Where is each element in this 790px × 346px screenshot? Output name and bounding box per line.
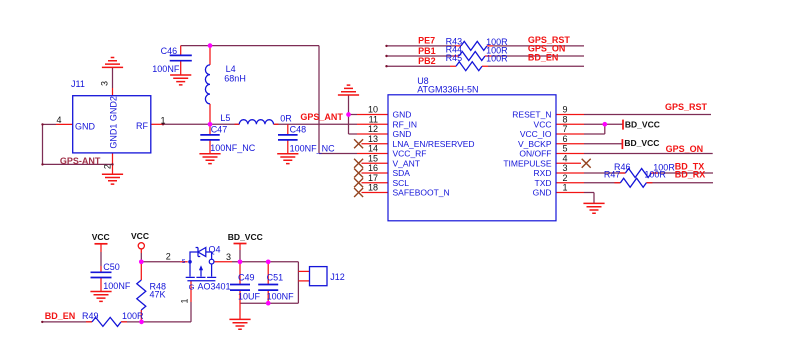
svg-text:47K: 47K xyxy=(150,290,166,300)
wire pin7 riser xyxy=(584,124,605,134)
resistor R47 leads xyxy=(614,182,652,184)
svg-text:68nH: 68nH xyxy=(224,74,246,84)
svg-text:ON/OFF: ON/OFF xyxy=(519,149,551,159)
wire VCC stem mid xyxy=(100,252,102,266)
svg-text:100NF: 100NF xyxy=(152,64,180,74)
ground below C49 xyxy=(229,319,250,329)
wire left column vertical xyxy=(42,124,44,164)
wire link to pin10 xyxy=(349,114,358,116)
VCC power stem xyxy=(100,244,102,292)
transistor Q4 channel bars xyxy=(186,276,217,278)
svg-text:GND: GND xyxy=(393,110,412,120)
svg-text:VCC: VCC xyxy=(131,231,149,241)
wire J11 pin4 to left column xyxy=(43,123,57,125)
ground below C50 xyxy=(90,292,111,302)
svg-text:BD_VCC: BD_VCC xyxy=(625,120,660,130)
node J11 corner bottom xyxy=(41,163,43,165)
inductor L4 coil xyxy=(205,65,210,104)
wire gate riser xyxy=(190,302,192,322)
svg-text:2: 2 xyxy=(103,164,113,169)
svg-text:PB1: PB1 xyxy=(418,46,436,56)
svg-text:4: 4 xyxy=(563,153,568,163)
wire J12 vertical xyxy=(297,262,299,303)
ground above J11 pin3 (inverted) xyxy=(102,58,123,68)
svg-text:GPS_ON: GPS_ON xyxy=(666,144,704,154)
resistor R49 leads xyxy=(86,321,127,323)
ground below C46 xyxy=(170,75,191,85)
resistor R46 leads xyxy=(619,172,657,174)
svg-text:C46: C46 xyxy=(161,46,178,56)
node PE7 wire end xyxy=(385,45,387,47)
no-connect X pin16 xyxy=(354,169,363,178)
svg-text:R47: R47 xyxy=(604,169,621,179)
svg-text:VCC_RF: VCC_RF xyxy=(393,149,427,159)
power port BD_VCC at pin8 (bar) xyxy=(622,120,624,130)
resistor R48 leads xyxy=(140,262,142,322)
ground above U8 pins 10/12 (inverted) xyxy=(338,85,359,95)
svg-text:GND: GND xyxy=(393,129,412,139)
J12 pin 2 stub xyxy=(298,280,309,282)
transistor Q4 gate line xyxy=(187,280,215,282)
resistor R43 zigzag xyxy=(461,41,487,50)
U8 pin 3 stub xyxy=(556,172,584,174)
svg-text:C51: C51 xyxy=(267,273,284,283)
svg-text:11: 11 xyxy=(369,114,378,124)
svg-text:RXD: RXD xyxy=(534,168,552,178)
svg-text:C49: C49 xyxy=(238,273,255,283)
wire R49 to gate corner xyxy=(121,321,191,323)
U8 pin 6 stub xyxy=(556,143,584,145)
svg-text:17: 17 xyxy=(368,173,378,183)
junction C51 top xyxy=(266,259,271,264)
svg-text:100R: 100R xyxy=(644,170,666,180)
svg-text:100R: 100R xyxy=(122,311,144,321)
U8 pin 5 stub xyxy=(556,153,584,155)
svg-text:BD_EN: BD_EN xyxy=(528,52,559,62)
node PB1 wire end xyxy=(385,55,387,57)
junction U8 gnd pin10 xyxy=(346,112,351,117)
svg-text:GPS_ANT: GPS_ANT xyxy=(300,112,343,122)
wire pin3 RXD to R46 and BD_TX xyxy=(584,172,713,174)
capacitor C51 leads xyxy=(267,262,269,303)
ground below C47 xyxy=(199,154,220,164)
svg-text:C48: C48 xyxy=(290,125,307,135)
wire GPS_ON pin5 xyxy=(584,153,713,155)
node J11 corner top xyxy=(41,123,43,125)
wire pin8 to BD_VCC xyxy=(584,123,623,125)
wire RF path left of L5 xyxy=(162,123,239,125)
ground at U8 pin1 xyxy=(583,203,604,213)
capacitor C49 leads xyxy=(239,262,241,320)
svg-text:100R: 100R xyxy=(486,54,508,64)
U8 pin 15 stub xyxy=(362,162,389,164)
svg-text:Q4: Q4 xyxy=(209,245,221,255)
wire bottom rail C49-C51-J12 xyxy=(240,302,298,304)
svg-text:GND: GND xyxy=(533,188,552,198)
node BD_EN wire end xyxy=(41,321,43,323)
U8 pin 2 stub xyxy=(556,182,584,184)
svg-text:SAFEBOOT_N: SAFEBOOT_N xyxy=(393,188,450,198)
svg-text:3: 3 xyxy=(226,252,231,262)
J11 pin 4 xyxy=(56,123,73,125)
node pin1 wire start xyxy=(162,123,164,125)
component pins (red) xyxy=(56,46,657,322)
transistor Q4 drain circle xyxy=(209,259,214,264)
svg-text:1: 1 xyxy=(563,183,568,193)
transistor Q4 arrow head xyxy=(199,265,203,270)
svg-text:BD_VCC: BD_VCC xyxy=(228,232,263,242)
transistor Q4 source pin xyxy=(180,261,188,263)
wire pin14 VCC_RF xyxy=(319,153,357,155)
svg-text:2: 2 xyxy=(166,252,171,262)
wire VCC2 stem mid xyxy=(140,253,142,262)
resistor R43 leads xyxy=(455,45,493,47)
svg-text:ATGM336H-5N: ATGM336H-5N xyxy=(417,85,478,95)
U8 pin 8 stub xyxy=(556,123,584,125)
svg-text:RF_IN: RF_IN xyxy=(393,119,418,129)
wire Q4 drain rail xyxy=(232,261,298,263)
wire link to pin12 xyxy=(349,133,358,135)
svg-text:6: 6 xyxy=(563,134,568,144)
svg-text:3: 3 xyxy=(563,163,568,173)
svg-text:BD_VCC: BD_VCC xyxy=(624,138,659,148)
svg-text:GND: GND xyxy=(75,121,96,131)
junction BD_VCC/C49 xyxy=(238,259,243,264)
transistor Q4 drain pin xyxy=(214,261,232,263)
svg-text:VCC: VCC xyxy=(534,119,552,129)
svg-text:VCC_IO: VCC_IO xyxy=(520,129,552,139)
wire pin2 TXD to R47 and BD_RX xyxy=(584,182,713,184)
node GPS-ANT pin2 xyxy=(111,163,113,165)
ground below C48 xyxy=(277,154,298,164)
power port VCC (bar) xyxy=(95,243,108,245)
capacitor C47 leads xyxy=(209,124,211,153)
junction L4/C47/RF xyxy=(208,122,213,127)
svg-text:4: 4 xyxy=(56,115,61,125)
capacitor C48 plates xyxy=(278,135,298,140)
U8 pin 10 stub xyxy=(357,114,388,116)
wire top rail C46/L4 to VCC_RF xyxy=(181,45,319,47)
transistor Q4 substrate arrow xyxy=(200,269,202,277)
svg-text:R49: R49 xyxy=(82,311,99,321)
svg-text:GND1 GND2: GND1 GND2 xyxy=(108,96,118,149)
transistor Q4 source dot xyxy=(188,260,192,264)
connector J12 body xyxy=(310,267,328,286)
resistor R49 zigzag xyxy=(92,317,121,326)
svg-text:1: 1 xyxy=(180,298,190,303)
VCC circle stem xyxy=(140,249,142,253)
svg-text:AO3401: AO3401 xyxy=(198,282,231,292)
svg-text:9: 9 xyxy=(563,105,568,115)
wire pin6 to BD_VCC xyxy=(584,143,622,145)
capacitor C46 leads xyxy=(180,46,182,75)
svg-text:BD_RX: BD_RX xyxy=(675,170,706,180)
svg-text:BD_EN: BD_EN xyxy=(45,311,76,321)
no-connect X pin13 xyxy=(354,139,363,148)
wire BD_VCC stem mid xyxy=(239,250,241,262)
resistor R45 zigzag xyxy=(456,62,482,71)
junction C51 bottom xyxy=(266,301,271,306)
U8 pin 14 stub xyxy=(357,153,388,155)
wire vertical rail to pin14 xyxy=(318,46,320,154)
wire PB2 row xyxy=(386,65,584,67)
resistor R44 zigzag xyxy=(459,52,485,61)
transistor Q4 gate pin xyxy=(190,281,192,302)
wire PE7 row xyxy=(386,45,584,47)
wire RF path right of L5 to pin11 xyxy=(274,123,358,125)
capacitor C46 plates xyxy=(170,55,192,60)
svg-text:SDA: SDA xyxy=(393,168,411,178)
svg-text:10UF: 10UF xyxy=(238,292,261,302)
svg-text:100NF_NC: 100NF_NC xyxy=(290,144,336,154)
inductor L5 leads xyxy=(235,123,279,125)
junction pin8/pin7 xyxy=(602,122,607,127)
resistor R44 leads xyxy=(453,55,491,57)
svg-text:100NF: 100NF xyxy=(267,292,295,302)
capacitor C47 plates xyxy=(200,135,219,140)
inductor L5 coil xyxy=(239,120,273,125)
svg-text:V_ANT: V_ANT xyxy=(393,158,420,168)
capacitor C49 plates xyxy=(230,285,250,291)
svg-text:G: G xyxy=(189,282,195,291)
svg-text:5: 5 xyxy=(563,144,568,154)
junction VCC/R48/Q4 xyxy=(139,259,144,264)
U8 pin 17 stub xyxy=(362,182,389,184)
svg-text:SCL: SCL xyxy=(393,178,410,188)
capacitor C48 leads xyxy=(287,124,289,153)
transistor Q4 top rail and body diode xyxy=(190,252,198,262)
U8 pin 13 stub xyxy=(362,143,389,145)
BD_VCC power stem xyxy=(239,244,241,251)
svg-text:TXD: TXD xyxy=(535,178,552,188)
power port BD_VCC bottom (bar) xyxy=(234,243,247,245)
resistor R47 zigzag xyxy=(620,178,646,187)
transistor Q4 source/drain verticals xyxy=(190,262,212,277)
J12 pin 1 stub xyxy=(298,270,309,272)
svg-text:13: 13 xyxy=(368,134,378,144)
IC U8 body xyxy=(388,95,556,221)
svg-text:18: 18 xyxy=(368,183,378,193)
node PB2 wire end xyxy=(385,65,387,67)
svg-text:12: 12 xyxy=(368,124,378,134)
wire VCC to Q4 source xyxy=(141,261,180,263)
U8 pin 11 stub xyxy=(357,123,388,125)
wire GPS-ANT bottom xyxy=(43,163,113,165)
svg-text:J11: J11 xyxy=(71,79,85,89)
wire PB1 row xyxy=(386,55,584,57)
resistor R46 zigzag xyxy=(625,169,651,178)
svg-text:15: 15 xyxy=(368,153,378,163)
no-connect X pin15 xyxy=(354,159,363,168)
svg-text:1: 1 xyxy=(160,115,165,125)
svg-text:0R: 0R xyxy=(280,114,292,124)
svg-text:14: 14 xyxy=(368,144,378,154)
no-connect X pin4 xyxy=(582,159,591,168)
U8 pin 16 stub xyxy=(362,172,389,174)
svg-text:PE7: PE7 xyxy=(418,36,435,46)
svg-text:GPS_RST: GPS_RST xyxy=(665,102,708,112)
svg-text:GPS-ANT: GPS-ANT xyxy=(60,156,101,166)
J11 pin 3 xyxy=(112,88,114,96)
power port BD_VCC at pin6 (bar) xyxy=(621,139,623,149)
wire pin1 GND to ground xyxy=(584,193,594,204)
wire U8 ground stem xyxy=(348,95,350,134)
svg-text:C47: C47 xyxy=(211,125,228,135)
wire BD_EN row xyxy=(42,321,92,323)
svg-text:7: 7 xyxy=(563,124,568,134)
U8 pin 12 stub xyxy=(357,133,388,135)
resistor R45 leads xyxy=(450,65,488,67)
svg-text:2: 2 xyxy=(563,173,568,183)
capacitor C50 plates xyxy=(91,272,112,277)
U8 pin 18 stub xyxy=(362,192,389,194)
capacitor C51 plates xyxy=(258,285,278,291)
svg-text:VCC: VCC xyxy=(92,232,110,242)
svg-text:R45: R45 xyxy=(446,53,463,63)
svg-text:8: 8 xyxy=(563,114,568,124)
wire J11 top ground stem xyxy=(112,67,114,88)
no-connect X pin18 xyxy=(354,188,363,197)
ground below J11 pin2 xyxy=(102,174,123,184)
svg-text:J12: J12 xyxy=(330,272,345,282)
svg-text:RESET_N: RESET_N xyxy=(512,110,551,120)
no-connect X pin17 xyxy=(354,178,363,187)
svg-text:10: 10 xyxy=(368,105,378,115)
junction R49/R48 xyxy=(139,320,144,325)
J11 pin 2 xyxy=(112,153,114,174)
U8 pin 4 stub xyxy=(556,162,581,164)
svg-text:16: 16 xyxy=(368,163,378,173)
svg-text:LNA_EN/RESERVED: LNA_EN/RESERVED xyxy=(393,139,475,149)
svg-text:100NF_NC: 100NF_NC xyxy=(210,143,256,153)
svg-text:3: 3 xyxy=(100,81,110,86)
junction C46/L4 top rail xyxy=(208,43,213,48)
svg-text:PB2: PB2 xyxy=(418,56,436,66)
svg-text:s: s xyxy=(182,256,186,265)
wire GPS_RST pin9 xyxy=(584,114,711,116)
power port VCC (circle) xyxy=(138,243,144,249)
svg-text:V_BCKP: V_BCKP xyxy=(518,139,552,149)
svg-text:L5: L5 xyxy=(220,113,230,123)
svg-text:100NF: 100NF xyxy=(103,281,131,291)
U8 pin 1 stub xyxy=(556,192,584,194)
U8 pin 9 stub xyxy=(556,114,584,116)
inductor L4 leads xyxy=(209,46,211,125)
resistor R48 zigzag (vertical) xyxy=(137,280,146,310)
connector J11 body xyxy=(73,96,151,153)
J11 pin 1 xyxy=(151,123,162,125)
U8 pin 7 stub xyxy=(556,133,584,135)
svg-text:C50: C50 xyxy=(103,262,120,272)
svg-text:TIMEPULSE: TIMEPULSE xyxy=(503,158,552,168)
svg-text:RF: RF xyxy=(136,121,148,131)
